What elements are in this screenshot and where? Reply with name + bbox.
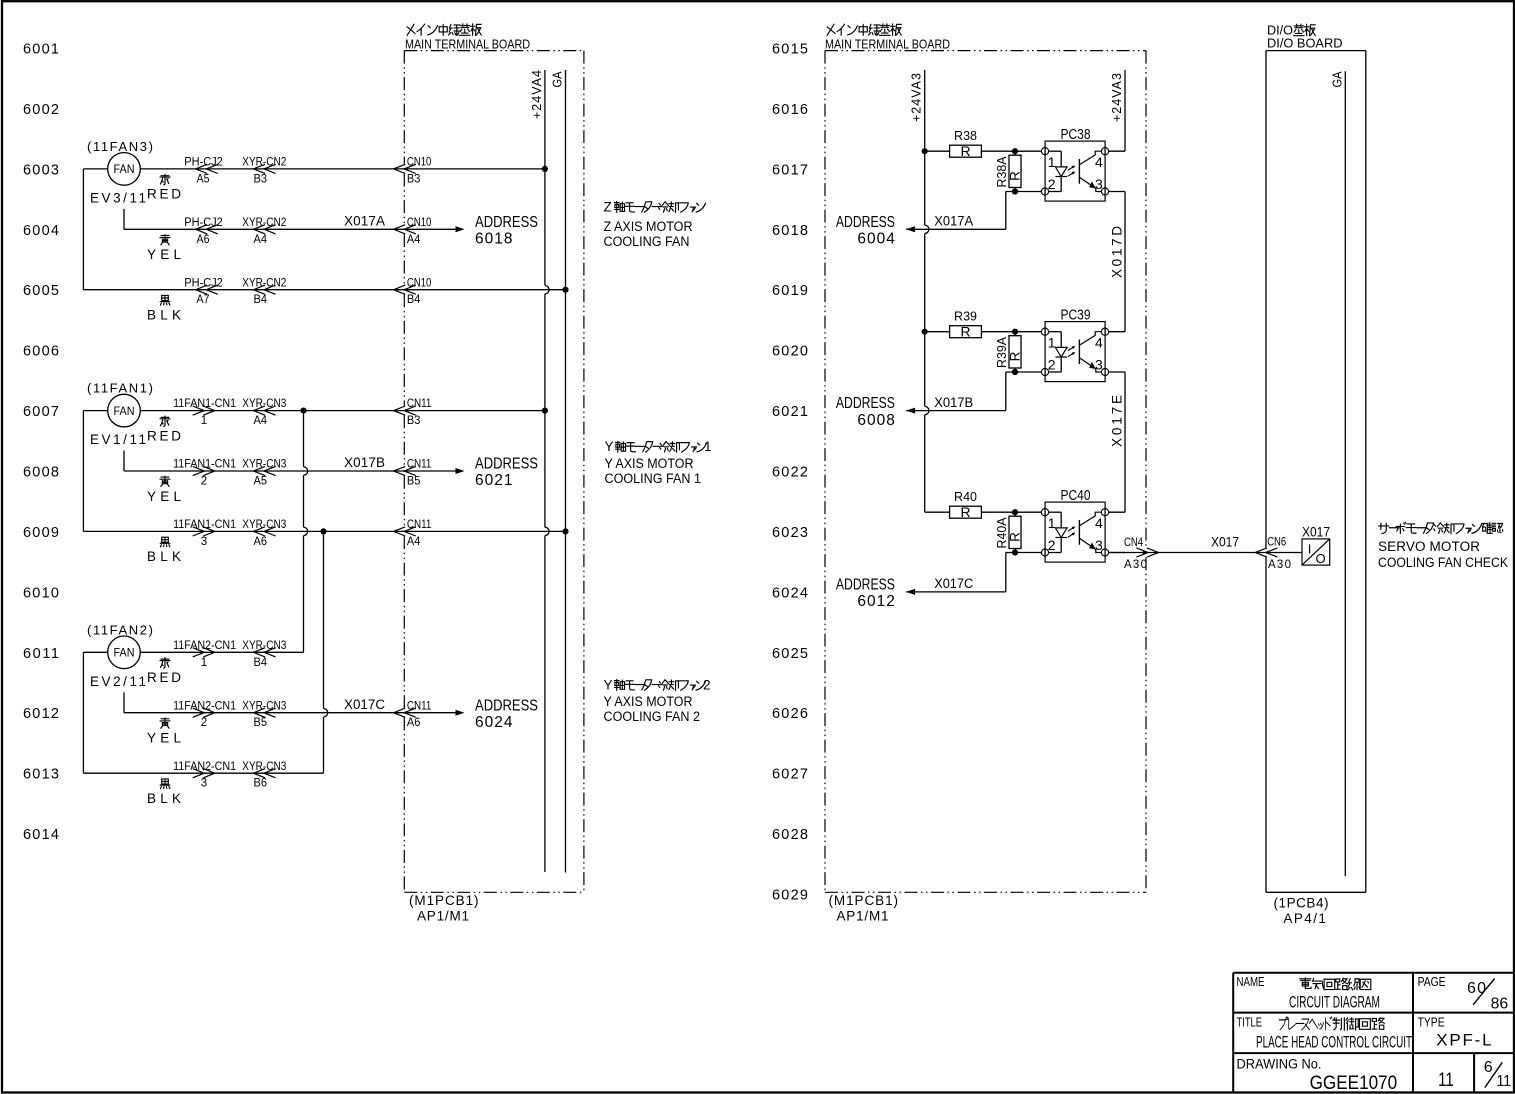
- svg-text:PLACE HEAD CONTROL CIRCUIT: PLACE HEAD CONTROL CIRCUIT: [1256, 1032, 1412, 1051]
- svg-text:NAME: NAME: [1237, 974, 1265, 989]
- svg-text:6014: 6014: [23, 827, 59, 843]
- svg-text:4: 4: [1095, 334, 1103, 350]
- svg-text:A4: A4: [407, 234, 421, 246]
- svg-text:A4: A4: [254, 234, 268, 246]
- svg-text:6002: 6002: [23, 102, 59, 118]
- svg-text:6021: 6021: [772, 404, 808, 420]
- svg-text:4: 4: [1095, 515, 1103, 531]
- svg-text:X017: X017: [1302, 525, 1330, 540]
- svg-text:X017D: X017D: [1109, 226, 1124, 278]
- svg-text:ADDRESS: ADDRESS: [836, 214, 895, 231]
- svg-text:A6: A6: [197, 234, 210, 246]
- svg-text:TYPE: TYPE: [1418, 1015, 1445, 1030]
- svg-text:6024: 6024: [772, 585, 808, 601]
- svg-text:R38: R38: [954, 129, 977, 143]
- svg-text:CN10: CN10: [407, 277, 432, 289]
- svg-text:6028: 6028: [772, 827, 808, 843]
- svg-text:X017A: X017A: [934, 214, 973, 229]
- svg-text:6008: 6008: [857, 412, 895, 429]
- svg-text:CN11: CN11: [407, 700, 432, 712]
- svg-text:A4: A4: [407, 536, 421, 548]
- svg-text:1: 1: [201, 657, 207, 669]
- svg-text:B3: B3: [407, 173, 421, 185]
- svg-text:YEL: YEL: [147, 247, 181, 262]
- svg-text:B4: B4: [254, 657, 268, 669]
- svg-text:6013: 6013: [23, 767, 59, 783]
- svg-text:DRAWING No.: DRAWING No.: [1237, 1057, 1322, 1072]
- svg-text:PC38: PC38: [1061, 126, 1091, 143]
- svg-text:BLK: BLK: [147, 549, 181, 564]
- svg-text:60: 60: [1467, 980, 1486, 997]
- svg-text:CN6: CN6: [1267, 537, 1286, 549]
- svg-text:A4: A4: [254, 415, 268, 427]
- svg-text:COOLING FAN CHECK: COOLING FAN CHECK: [1378, 555, 1508, 570]
- svg-text:PH-CJ2: PH-CJ2: [184, 217, 223, 229]
- svg-text:6022: 6022: [772, 465, 808, 481]
- svg-text:X017C: X017C: [934, 576, 973, 591]
- svg-text:XYR-CN2: XYR-CN2: [242, 157, 286, 169]
- svg-text:COOLING FAN: COOLING FAN: [604, 234, 690, 249]
- svg-text:CN11: CN11: [407, 519, 432, 531]
- svg-text:A7: A7: [197, 294, 210, 306]
- svg-text:FAN: FAN: [114, 164, 135, 176]
- svg-text:BLK: BLK: [147, 308, 181, 323]
- svg-text:YEL: YEL: [147, 489, 181, 504]
- svg-text:SERVO MOTOR: SERVO MOTOR: [1378, 539, 1480, 554]
- svg-text:YEL: YEL: [147, 731, 181, 746]
- svg-text:6004: 6004: [23, 223, 59, 239]
- svg-text:11: 11: [1438, 1069, 1454, 1091]
- svg-text:CIRCUIT DIAGRAM: CIRCUIT DIAGRAM: [1289, 992, 1380, 1011]
- svg-text:6026: 6026: [772, 706, 808, 722]
- svg-text:CN4: CN4: [1124, 537, 1143, 549]
- svg-text:AP4/1: AP4/1: [1283, 911, 1326, 926]
- svg-text:ADDRESS: ADDRESS: [475, 456, 538, 473]
- svg-text:PC40: PC40: [1061, 487, 1091, 504]
- svg-text:CN11: CN11: [407, 398, 432, 410]
- svg-text:Z AXIS MOTOR: Z AXIS MOTOR: [604, 219, 693, 234]
- svg-text:R: R: [1007, 351, 1022, 361]
- svg-text:(M1PCB1): (M1PCB1): [829, 893, 899, 908]
- svg-text:XYR-CN3: XYR-CN3: [242, 700, 286, 712]
- svg-text:6009: 6009: [23, 525, 59, 541]
- svg-text:1: 1: [1048, 334, 1056, 350]
- svg-text:Y AXIS MOTOR: Y AXIS MOTOR: [605, 456, 694, 471]
- svg-text:X017B: X017B: [344, 455, 385, 470]
- svg-text:6008: 6008: [23, 465, 59, 481]
- svg-text:R: R: [960, 143, 970, 159]
- svg-text:XYR-CN3: XYR-CN3: [242, 761, 286, 773]
- svg-text:(11FAN1): (11FAN1): [87, 381, 153, 396]
- svg-text:RED: RED: [147, 428, 181, 443]
- svg-text:R: R: [1007, 171, 1022, 181]
- svg-text:(M1PCB1): (M1PCB1): [409, 893, 479, 908]
- svg-text:B3: B3: [407, 415, 421, 427]
- svg-text:O: O: [1315, 551, 1325, 566]
- svg-text:6012: 6012: [23, 706, 59, 722]
- svg-text:ADDRESS: ADDRESS: [836, 577, 895, 594]
- svg-text:11FAN2-CN1: 11FAN2-CN1: [173, 640, 236, 652]
- svg-text:6024: 6024: [475, 714, 513, 731]
- svg-text:11FAN1-CN1: 11FAN1-CN1: [173, 459, 236, 471]
- svg-text:R: R: [1007, 532, 1022, 542]
- svg-text:6025: 6025: [772, 646, 808, 662]
- svg-text:11: 11: [1497, 1073, 1512, 1090]
- svg-text:XPF-L: XPF-L: [1436, 1030, 1491, 1049]
- svg-text:6012: 6012: [857, 593, 895, 610]
- svg-text:A6: A6: [407, 717, 421, 729]
- svg-text:6007: 6007: [23, 404, 59, 420]
- svg-text:CN10: CN10: [407, 217, 432, 229]
- svg-text:MAIN TERMINAL BOARD: MAIN TERMINAL BOARD: [825, 36, 950, 51]
- svg-text:I: I: [1308, 542, 1312, 557]
- svg-text:XYR-CN3: XYR-CN3: [242, 640, 286, 652]
- svg-text:6018: 6018: [772, 223, 808, 239]
- svg-text:(1PCB4): (1PCB4): [1274, 895, 1329, 910]
- svg-text:6015: 6015: [772, 42, 808, 58]
- svg-text:B4: B4: [407, 294, 421, 306]
- svg-text:EV3/11: EV3/11: [90, 191, 146, 206]
- svg-text:A5: A5: [197, 173, 210, 185]
- svg-text:PH-CJ2: PH-CJ2: [184, 277, 223, 289]
- svg-text:B5: B5: [254, 717, 268, 729]
- svg-text:6023: 6023: [772, 525, 808, 541]
- svg-text:R39: R39: [954, 310, 977, 324]
- svg-text:COOLING FAN 2: COOLING FAN 2: [604, 709, 701, 724]
- svg-text:A30: A30: [1268, 559, 1291, 571]
- svg-text:CN11: CN11: [407, 459, 432, 471]
- svg-text:3: 3: [201, 778, 207, 790]
- svg-text:XYR-CN3: XYR-CN3: [242, 519, 286, 531]
- svg-text:FAN: FAN: [114, 406, 135, 418]
- svg-text:COOLING FAN 1: COOLING FAN 1: [605, 471, 702, 486]
- svg-text:2: 2: [201, 717, 207, 729]
- svg-text:Z: Z: [604, 199, 612, 214]
- svg-text:2: 2: [1048, 537, 1056, 553]
- svg-text:1: 1: [201, 415, 207, 427]
- svg-text:X017: X017: [1211, 535, 1239, 550]
- svg-text:B5: B5: [407, 476, 421, 488]
- svg-text:Y AXIS MOTOR: Y AXIS MOTOR: [604, 694, 693, 709]
- svg-text:XYR-CN3: XYR-CN3: [242, 459, 286, 471]
- svg-text:FAN: FAN: [114, 648, 135, 660]
- svg-text:6019: 6019: [772, 283, 808, 299]
- svg-text:6001: 6001: [23, 42, 59, 58]
- svg-text:2: 2: [703, 677, 711, 692]
- svg-text:GGEE1070: GGEE1070: [1310, 1072, 1398, 1094]
- svg-text:X017E: X017E: [1109, 395, 1124, 447]
- svg-text:6006: 6006: [23, 344, 59, 360]
- svg-text:A6: A6: [254, 536, 268, 548]
- svg-text:B4: B4: [254, 294, 268, 306]
- svg-text:6021: 6021: [475, 472, 513, 489]
- svg-text:11FAN2-CN1: 11FAN2-CN1: [173, 761, 236, 773]
- svg-text:86: 86: [1491, 996, 1509, 1013]
- svg-text:PH-CJ2: PH-CJ2: [184, 157, 223, 169]
- svg-text:11FAN2-CN1: 11FAN2-CN1: [173, 700, 236, 712]
- svg-text:+24VA3: +24VA3: [1110, 73, 1124, 122]
- svg-text:+24VA4: +24VA4: [530, 70, 544, 119]
- svg-text:1: 1: [704, 439, 712, 454]
- svg-text:2: 2: [1048, 356, 1056, 372]
- svg-text:XYR-CN3: XYR-CN3: [242, 398, 286, 410]
- svg-text:XYR-CN2: XYR-CN2: [242, 217, 286, 229]
- svg-text:6010: 6010: [23, 585, 59, 601]
- svg-text:GA: GA: [1330, 71, 1344, 88]
- svg-text:AP1/M1: AP1/M1: [837, 909, 889, 924]
- svg-text:EV2/11: EV2/11: [90, 674, 146, 689]
- svg-text:6029: 6029: [772, 888, 808, 904]
- svg-text:RED: RED: [147, 670, 181, 685]
- svg-text:6020: 6020: [772, 344, 808, 360]
- svg-text:B6: B6: [254, 778, 268, 790]
- svg-text:X017B: X017B: [934, 395, 973, 410]
- svg-text:XYR-CN2: XYR-CN2: [242, 277, 286, 289]
- svg-text:Y: Y: [604, 677, 613, 692]
- svg-text:ADDRESS: ADDRESS: [475, 214, 538, 231]
- svg-text:GA: GA: [550, 71, 564, 88]
- svg-text:CN10: CN10: [407, 157, 432, 169]
- svg-text:6016: 6016: [772, 102, 808, 118]
- svg-text:11FAN1-CN1: 11FAN1-CN1: [173, 398, 236, 410]
- svg-text:(11FAN2): (11FAN2): [87, 622, 153, 637]
- svg-text:MAIN TERMINAL BOARD: MAIN TERMINAL BOARD: [405, 36, 530, 51]
- svg-text:2: 2: [1048, 176, 1056, 192]
- svg-text:6: 6: [1484, 1059, 1493, 1076]
- svg-text:6003: 6003: [23, 162, 59, 178]
- svg-text:RED: RED: [147, 187, 181, 202]
- svg-text:+24VA3: +24VA3: [910, 73, 924, 122]
- svg-text:6005: 6005: [23, 283, 59, 299]
- svg-text:DI/O BOARD: DI/O BOARD: [1267, 36, 1343, 51]
- svg-text:PC39: PC39: [1061, 307, 1091, 324]
- svg-text:6017: 6017: [772, 162, 808, 178]
- svg-text:A5: A5: [254, 476, 268, 488]
- svg-text:R: R: [960, 323, 970, 339]
- svg-text:AP1/M1: AP1/M1: [417, 909, 469, 924]
- svg-text:ADDRESS: ADDRESS: [475, 697, 538, 714]
- svg-text:6004: 6004: [857, 231, 895, 248]
- svg-text:EV1/11: EV1/11: [90, 432, 146, 447]
- svg-text:4: 4: [1095, 154, 1103, 170]
- svg-text:BLK: BLK: [147, 791, 181, 806]
- svg-text:2: 2: [201, 476, 207, 488]
- svg-text:R: R: [960, 504, 970, 520]
- svg-text:3: 3: [201, 536, 207, 548]
- svg-text:Y: Y: [605, 439, 614, 454]
- svg-text:ADDRESS: ADDRESS: [836, 395, 895, 412]
- svg-text:R40: R40: [954, 490, 977, 504]
- svg-text:TITLE: TITLE: [1237, 1015, 1263, 1030]
- svg-text:X017C: X017C: [344, 697, 385, 712]
- svg-text:11FAN1-CN1: 11FAN1-CN1: [173, 519, 236, 531]
- svg-text:A30: A30: [1124, 559, 1147, 571]
- svg-text:6018: 6018: [475, 231, 513, 248]
- svg-text:B3: B3: [254, 173, 268, 185]
- svg-text:X017A: X017A: [344, 214, 385, 229]
- svg-text:6027: 6027: [772, 767, 808, 783]
- svg-text:(11FAN3): (11FAN3): [87, 139, 153, 154]
- svg-text:1: 1: [1048, 515, 1056, 531]
- svg-text:PAGE: PAGE: [1418, 974, 1446, 989]
- svg-text:1: 1: [1048, 154, 1056, 170]
